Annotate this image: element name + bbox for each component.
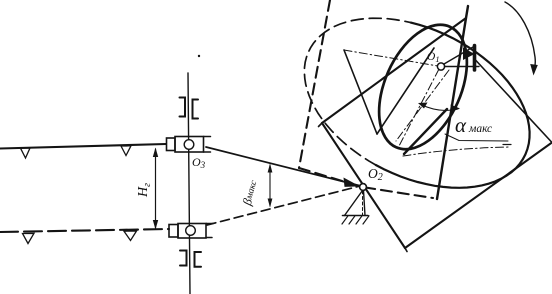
solid plate edge L-B	[322, 123, 405, 248]
support mid dashed	[362, 191, 364, 215]
svg-text:О3: О3	[192, 155, 206, 170]
flag bar	[473, 46, 477, 71]
dot above mast	[198, 55, 200, 57]
support left leg	[345, 191, 363, 216]
upper ground line	[0, 144, 166, 149]
lower bracket left	[180, 251, 187, 266]
support base	[343, 215, 369, 217]
dashed plate bottom edge	[299, 168, 433, 198]
upper bracket left	[180, 98, 186, 117]
mast centerline	[188, 73, 190, 294]
upper roller O3 left cap	[167, 138, 176, 151]
outer swing curve solid part	[376, 23, 530, 188]
lower roller left cap	[169, 225, 178, 238]
dashed plate left edge	[299, 0, 330, 168]
lower roller right ticks	[206, 224, 213, 238]
support hatching	[342, 216, 369, 224]
upper roller O3 body	[175, 137, 204, 153]
alpha label leader underline	[445, 134, 508, 141]
dashed rope lower roller to O2	[207, 186, 360, 225]
filled arrowhead at O2	[344, 178, 361, 187]
lower roller body	[178, 224, 206, 239]
support right leg	[364, 191, 366, 216]
upper bracket right	[193, 100, 199, 119]
alpha arc right arrow	[451, 105, 461, 112]
solid plate edge T-L	[322, 18, 466, 123]
lower roller sheave circle	[186, 226, 196, 236]
svg-text:макс: макс	[468, 123, 492, 135]
dimension Hg top arrow	[153, 148, 158, 158]
dash-dot spoke S2	[396, 70, 449, 141]
dash-dot spoke S1 from O1	[398, 69, 439, 148]
node O2	[360, 184, 367, 191]
svg-text:α: α	[455, 113, 467, 137]
V-triangle right arm	[377, 48, 434, 134]
tick at end of construction line	[503, 144, 511, 146]
svg-text:βмакс: βмакс	[240, 178, 261, 208]
svg-text:О1: О1	[427, 51, 440, 64]
beta arrow up	[268, 164, 273, 173]
level triangle 4	[124, 231, 137, 241]
solid plate edge B-R	[405, 143, 552, 249]
dash-dot construction line lower right	[403, 147, 510, 156]
rotation curved arrow	[505, 2, 535, 72]
dimension Hg line	[155, 149, 157, 228]
dimension Hg bottom arrow	[153, 220, 158, 230]
rope O3 to O2	[206, 147, 359, 186]
vertical hoist rope	[437, 6, 468, 199]
alpha arc left arrow	[418, 103, 428, 109]
level triangle 3	[23, 233, 35, 243]
rope O1 to flag top	[444, 47, 473, 64]
dash-dot line V vertex to O1	[344, 50, 438, 66]
corner overshoot at B	[405, 248, 407, 252]
outer swing curve dashed part	[304, 18, 410, 165]
alpha angle arc	[420, 104, 458, 110]
lower ground line (dashed)	[0, 229, 169, 232]
beta arrow down	[268, 199, 273, 208]
svg-text:Hг: Hг	[136, 183, 153, 198]
node O1	[437, 63, 444, 70]
level triangle 1	[21, 148, 31, 158]
V-triangle left arm	[344, 50, 377, 134]
beta dimension line	[269, 165, 271, 206]
rope from flag to corner R	[476, 60, 552, 143]
level triangle 2	[121, 146, 131, 156]
thick pointer segment	[404, 109, 447, 154]
inner drum ellipse	[361, 11, 484, 163]
flag filled triangle at O1	[463, 48, 475, 61]
upper roller O3 sheave circle	[184, 140, 194, 150]
rope O1 to flag bottom	[445, 66, 480, 68]
corner overshoot at L	[319, 123, 323, 127]
rotation arrow head	[530, 64, 538, 76]
upper roller O3 right ticks	[204, 137, 211, 153]
lower bracket right	[195, 252, 202, 267]
